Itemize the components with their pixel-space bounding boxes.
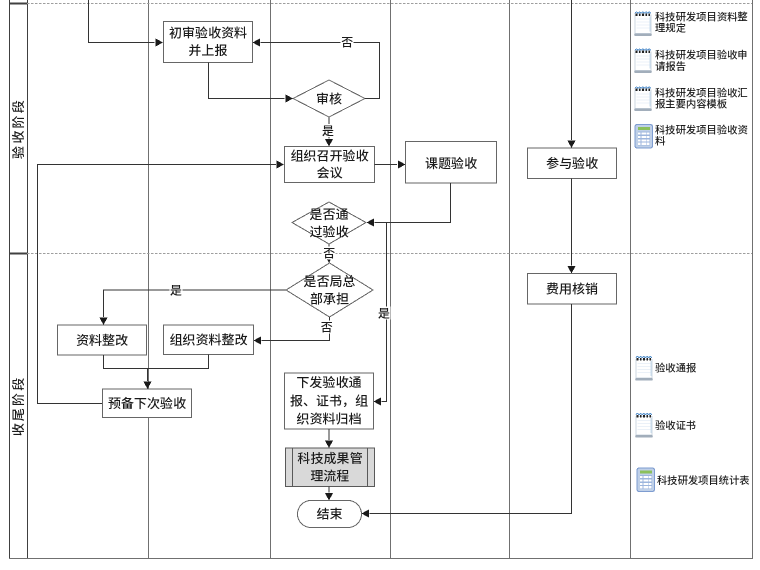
box 课题验收: [406, 142, 497, 184]
svg-text:费用核销: 费用核销: [545, 279, 598, 298]
box 下发验收通报证书组织资料归档: [285, 372, 374, 429]
svg-text:是否局总: 是否局总: [303, 271, 355, 290]
box 组织召开验收会议: [285, 145, 375, 182]
column divider x148: [148, 0, 150, 559]
column divider x390: [390, 0, 392, 559]
svg-text:预备下次验收: 预备下次验收: [108, 393, 186, 412]
svg-text:科技研发项目统计表: 科技研发项目统计表: [657, 472, 750, 487]
wire 费用核销 to 结束: [362, 304, 572, 518]
doc icon 科技研发项目资料整理规定: [634, 12, 652, 36]
doc icon 科技研发项目统计表 (table): [637, 468, 655, 492]
label 否 (通过验收): [323, 245, 336, 262]
box 预备下次验收: [103, 389, 192, 418]
wire 科技成果 to 结束: [325, 487, 333, 501]
svg-text:科技成果管: 科技成果管: [297, 448, 362, 467]
column divider x270: [270, 0, 272, 559]
box 费用核销: [528, 274, 617, 305]
wire 初审 to 审核: [209, 63, 294, 103]
svg-text:请报告: 请报告: [655, 58, 686, 73]
label 否 (局总部): [320, 319, 333, 336]
svg-text:初审验收资料: 初审验收资料: [169, 22, 247, 41]
wire 局总部 否 to 组织资料整改: [254, 317, 330, 345]
box 资料整改: [58, 325, 147, 355]
column divider x630: [630, 0, 632, 559]
svg-text:过验收: 过验收: [309, 222, 348, 241]
table bottom border: [9, 558, 753, 560]
diamond 是否局总部承担: [286, 263, 373, 317]
svg-text:科技研发项目验收资: 科技研发项目验收资: [655, 121, 748, 136]
svg-text:验收证书: 验收证书: [655, 417, 696, 432]
doc icon 科技研发项目验收汇报主要内容模板: [634, 87, 652, 111]
lane label 验收阶段: [8, 98, 27, 160]
lane label column right border: [27, 0, 29, 559]
wire 参与验收 to 费用核销: [567, 179, 575, 274]
svg-text:审核: 审核: [316, 88, 342, 107]
svg-text:织资料归档: 织资料归档: [296, 409, 361, 428]
svg-text:料: 料: [655, 133, 666, 148]
label 否 (审核): [341, 34, 354, 51]
wire 是否通过验收 否 down: [325, 244, 333, 263]
diamond 审核: [293, 80, 365, 117]
svg-text:否: 否: [323, 245, 335, 262]
label 是 (通过验收): [378, 305, 391, 322]
lane divider label segment: [9, 253, 27, 255]
diamond 是否通过验收: [292, 202, 366, 244]
svg-text:是否通: 是否通: [309, 204, 348, 223]
svg-text:是: 是: [378, 305, 390, 322]
wire 下发 to 科技成果管理流程: [325, 429, 333, 448]
box 参与验收: [528, 148, 617, 179]
svg-text:结束: 结束: [316, 504, 342, 523]
subprocess 科技成果管理流程: [286, 448, 375, 487]
wire 审核 是 down: [325, 117, 333, 147]
merge wires to 预备下次验收: [104, 355, 209, 390]
terminator 结束: [298, 501, 362, 528]
doc icon 科技研发项目验收资料 (table): [635, 125, 653, 149]
svg-text:验收通报: 验收通报: [655, 360, 697, 375]
svg-text:理规定: 理规定: [655, 20, 687, 35]
svg-text:理流程: 理流程: [310, 466, 350, 485]
svg-text:是: 是: [170, 282, 182, 299]
doc icon 验收通报: [635, 357, 653, 381]
label 是 (审核): [322, 122, 335, 139]
column divider x509: [509, 0, 511, 559]
svg-text:下发验收通: 下发验收通: [296, 372, 361, 391]
svg-text:并上报: 并上报: [188, 40, 227, 59]
doc icon 科技研发项目验收申请报告: [634, 49, 652, 73]
wire 组织召开 to 课题验收: [375, 160, 406, 168]
wire into 参与验收 from above: [567, 0, 575, 148]
lane label 收尾阶段: [8, 376, 27, 437]
svg-text:组织资料整改: 组织资料整改: [169, 330, 247, 349]
svg-text:资料整改: 资料整改: [76, 330, 128, 349]
top lane boundary dashed: [27, 3, 752, 5]
svg-text:验收阶段: 验收阶段: [8, 98, 27, 160]
svg-text:部承担: 部承担: [310, 289, 349, 308]
svg-text:参与验收: 参与验收: [546, 153, 598, 172]
lane divider y253 dashed: [27, 253, 752, 255]
doc icon 验收证书: [635, 414, 653, 438]
box 组织资料整改: [164, 325, 254, 355]
top lane boundary label segment: [9, 3, 27, 5]
box 初审验收资料并上报: [164, 22, 253, 63]
wire 局总部 是 to 资料整改: [99, 290, 286, 325]
svg-text:课题验收: 课题验收: [425, 153, 477, 172]
table right border: [752, 0, 754, 559]
wire 审核 否 loop back: [253, 38, 380, 98]
svg-text:否: 否: [320, 319, 332, 336]
svg-text:会议: 会议: [316, 162, 342, 181]
swimlane table outer left border: [9, 0, 11, 559]
svg-text:收尾阶段: 收尾阶段: [8, 376, 27, 437]
label 是 (局总部): [170, 282, 183, 299]
svg-text:是: 是: [322, 122, 334, 139]
wire into 初审验收资料并上报 from above lane: [89, 0, 164, 47]
loop wire from 预备下次验收 to 组织召开验收会议: [38, 160, 285, 403]
wire 课题验收 to 是否通过验收: [367, 183, 451, 227]
svg-text:报主要内容模板: 报主要内容模板: [655, 96, 728, 111]
wire 是否通过验收 是 to 下发 box: [374, 223, 387, 406]
svg-text:否: 否: [341, 34, 353, 51]
svg-text:报、证书，组: 报、证书，组: [290, 390, 368, 409]
